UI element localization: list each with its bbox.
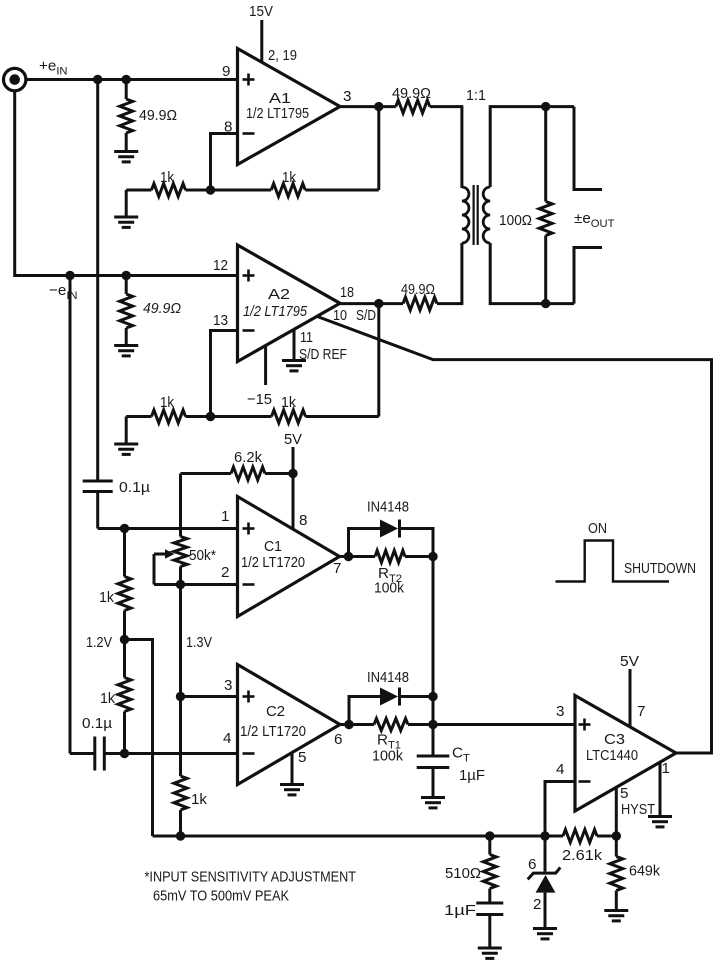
- resistor RT1 100k: [349, 723, 374, 726]
- svg-text:13: 13: [213, 312, 228, 329]
- svg-text:1k: 1k: [160, 394, 174, 411]
- svg-text:8: 8: [299, 512, 307, 529]
- node A2 inverting junction: [206, 412, 215, 421]
- resistor 510ohm: [488, 836, 491, 855]
- svg-text:3: 3: [343, 88, 351, 105]
- svg-text:ON: ON: [588, 520, 607, 537]
- wire C3 output to right edge: [676, 752, 712, 755]
- svg-text:1k: 1k: [99, 589, 114, 606]
- ground below 1k A1: [125, 190, 128, 217]
- resistor 1k A2 feedback: [211, 415, 272, 418]
- resistor 100ohm load: [544, 107, 547, 202]
- wire pin 13 to junction: [211, 331, 238, 417]
- svg-text:−15: −15: [247, 391, 272, 408]
- zener reference diode: [544, 836, 547, 872]
- svg-text:100k: 100k: [372, 748, 403, 765]
- svg-text:49.9Ω: 49.9Ω: [139, 107, 177, 124]
- svg-text:5V: 5V: [284, 431, 303, 448]
- node bus 1k: [176, 831, 185, 840]
- svg-text:A2: A2: [268, 286, 290, 303]
- resistor 49.9ohm A2 output: [379, 302, 403, 305]
- node 100ohm top: [541, 102, 550, 111]
- primary drop wire: [460, 107, 463, 188]
- ground below 1k A2: [125, 417, 128, 445]
- node bus zener: [540, 831, 549, 840]
- resistor 1k bottom: [174, 776, 187, 810]
- svg-text:1/2 LT1720: 1/2 LT1720: [241, 554, 305, 571]
- node bus 510ohm: [485, 831, 494, 840]
- wire A1 feedback row: [126, 189, 151, 192]
- svg-text:1/2 LT1795: 1/2 LT1795: [243, 303, 307, 320]
- input terminal +eIN: [4, 68, 26, 90]
- wire C1 pin 2 row: [154, 583, 238, 586]
- diode IN4148 C1 feedback: [349, 529, 381, 557]
- svg-text:4: 4: [223, 730, 231, 747]
- resistor 49.9ohm A1 output: [379, 105, 396, 108]
- supply 15V stub A1 pins 2,19: [260, 20, 263, 63]
- svg-text:1/2 LT1720: 1/2 LT1720: [240, 723, 306, 740]
- node pot bottom: [176, 580, 185, 589]
- capacitor CT 1uF: [432, 725, 435, 757]
- svg-text:12: 12: [213, 257, 228, 274]
- wire 1.3V node line: [179, 585, 182, 777]
- node junction on pin4 wire: [120, 749, 129, 758]
- capacitor 0.1u lower: [70, 752, 95, 755]
- wire feedback up to A1 output: [377, 107, 380, 190]
- svg-text:49.9Ω: 49.9Ω: [401, 281, 435, 298]
- wire S/D shutdown net: [316, 316, 712, 753]
- node junction on +eIN at x=126.2: [122, 75, 131, 84]
- svg-text:6.2k: 6.2k: [234, 449, 262, 466]
- svg-text:100Ω: 100Ω: [499, 212, 532, 229]
- resistor 6.2k pull-up: [181, 472, 232, 475]
- svg-text:7: 7: [637, 703, 645, 720]
- svg-text:1k: 1k: [100, 690, 115, 707]
- node C2 pin3 junction: [176, 692, 185, 701]
- svg-text:10: 10: [333, 307, 347, 324]
- resistor 1k A1 feedback: [211, 189, 272, 192]
- svg-text:C3: C3: [604, 731, 625, 748]
- svg-text:100k: 100k: [374, 580, 404, 597]
- svg-text:5: 5: [298, 749, 306, 766]
- pot wiper arrow: [154, 553, 166, 556]
- waveform ON/SHUTDOWN: [556, 541, 670, 582]
- supply 5V stub C3 pin 7: [629, 669, 632, 727]
- wire feedback up to A2 output: [377, 304, 380, 417]
- svg-text:IN4148: IN4148: [367, 669, 409, 686]
- node RT1 right CT top: [428, 720, 437, 729]
- comparator C3 LTC1440: [575, 696, 676, 812]
- svg-text:1.2V: 1.2V: [86, 634, 113, 651]
- ground below zener: [533, 929, 557, 939]
- node junction on +eIN at x=97.7: [93, 75, 102, 84]
- node RT2 right: [428, 552, 437, 561]
- node A1 inverting junction: [206, 185, 215, 194]
- resistor pot 50k with arrow: [179, 474, 182, 537]
- supply 5V stub C1 pin 8: [292, 447, 295, 530]
- bottom bus wire: [153, 835, 564, 838]
- svg-text:1k: 1k: [282, 169, 296, 186]
- svg-text:11: 11: [300, 329, 313, 346]
- wire input shield down to -eIN: [15, 91, 238, 276]
- wire A2 output: [340, 302, 379, 305]
- resistor 1k A1 to ground: [152, 184, 186, 197]
- primary bottom wire: [460, 243, 463, 304]
- resistor 1k A2 to ground: [152, 410, 186, 423]
- svg-text:1µF: 1µF: [444, 902, 476, 919]
- svg-text:C2: C2: [266, 703, 285, 720]
- node 5V junction: [288, 469, 297, 478]
- svg-text:49.9Ω: 49.9Ω: [392, 85, 431, 102]
- svg-text:6: 6: [334, 731, 342, 748]
- wire to C1 pin 1: [98, 527, 238, 530]
- resistor 1k chain upper: [123, 529, 126, 577]
- node A2 output junction: [374, 299, 383, 308]
- ground below CT: [421, 798, 445, 808]
- wire A1 output: [340, 105, 379, 108]
- comparator C1 1/2 LT1720: [238, 497, 340, 617]
- svg-text:1k: 1k: [191, 791, 207, 808]
- resistor 49.9ohm input A1: [125, 80, 128, 100]
- svg-text:649k: 649k: [629, 863, 660, 880]
- comparator C2 1/2 LT1720: [238, 665, 341, 785]
- svg-text:3: 3: [224, 677, 232, 694]
- svg-text:1µF: 1µF: [459, 767, 485, 784]
- output bracket upper arm: [574, 107, 602, 190]
- node A1 output junction: [374, 102, 383, 111]
- svg-text:15V: 15V: [249, 3, 274, 20]
- svg-text:8: 8: [224, 119, 232, 136]
- svg-text:65mV TO 500mV PEAK: 65mV TO 500mV PEAK: [153, 888, 289, 905]
- node C1 output: [344, 552, 353, 561]
- svg-text:0.1µ: 0.1µ: [82, 715, 112, 732]
- pin 11 S/D REF stub: [293, 329, 296, 360]
- svg-text:18: 18: [340, 284, 354, 301]
- primary winding: [462, 187, 469, 243]
- wire to C3 pin 3: [433, 723, 575, 726]
- svg-text:2: 2: [533, 896, 541, 913]
- svg-text:SHUTDOWN: SHUTDOWN: [624, 560, 696, 577]
- svg-text:1:1: 1:1: [466, 87, 486, 104]
- ground below 1uF: [478, 948, 502, 958]
- node C2 output: [344, 720, 353, 729]
- wire to C2 pin 4: [104, 752, 237, 755]
- svg-text:2.61k: 2.61k: [562, 847, 602, 864]
- node junction 1k chain top: [120, 524, 129, 533]
- ground below 49.9ohm A1: [114, 152, 138, 162]
- svg-text:9: 9: [222, 63, 230, 80]
- svg-text:LTC1440: LTC1440: [586, 747, 638, 764]
- wire pin 8 to junction: [211, 134, 238, 191]
- ground below 649k: [604, 911, 628, 921]
- ground S/D REF: [282, 361, 306, 371]
- svg-text:510Ω: 510Ω: [445, 865, 481, 882]
- resistor RT2 100k: [349, 555, 376, 558]
- svg-text:5: 5: [620, 785, 628, 802]
- ground below 49.9ohm A2: [114, 346, 138, 356]
- diode IN4148 C2 feedback: [349, 697, 380, 725]
- svg-text:4: 4: [556, 761, 564, 778]
- wire RT2 node down to C2 diode node: [432, 557, 435, 697]
- capacitor 1uF below 510ohm: [488, 889, 491, 904]
- resistor 1k chain lower: [123, 640, 126, 678]
- svg-text:3: 3: [556, 703, 564, 720]
- core bars: [473, 185, 475, 245]
- svg-text:S/D REF: S/D REF: [299, 346, 347, 363]
- secondary bottom rail: [490, 243, 574, 304]
- resistor 649k: [615, 836, 618, 857]
- supply -15 stub A2: [264, 346, 267, 386]
- svg-text:0.1µ: 0.1µ: [119, 479, 150, 496]
- output bracket lower arm: [574, 248, 602, 304]
- svg-text:7: 7: [333, 560, 341, 577]
- svg-text:2, 19: 2, 19: [268, 47, 297, 64]
- wire +eIN to A1 pin 9: [27, 78, 238, 81]
- pin 5 ground stub C2: [291, 753, 294, 785]
- secondary top rail: [490, 107, 574, 187]
- svg-text:6: 6: [528, 856, 536, 873]
- node 1.2V: [120, 635, 129, 644]
- op-amp A1 1/2 LT1795: [238, 49, 341, 165]
- wire 1.2V to bottom bus: [125, 640, 153, 837]
- node diode cathode junction: [428, 692, 437, 701]
- wire A2 feedback row: [126, 415, 151, 418]
- C3 pin 5 HYST stub: [615, 788, 618, 836]
- svg-text:1/2 LT1795: 1/2 LT1795: [246, 105, 309, 122]
- svg-text:5V: 5V: [620, 653, 640, 670]
- op-amp A2 1/2 LT1795: [238, 245, 341, 362]
- svg-text:IN4148: IN4148: [367, 499, 409, 516]
- wire to C2 pin 3: [181, 695, 238, 698]
- svg-text:1.3V: 1.3V: [186, 634, 213, 651]
- resistor 49.9ohm input A2 italic: [125, 276, 128, 295]
- C3 ground pin stub: [659, 763, 662, 817]
- wire +eIN tap down to 0.1u cap: [96, 80, 99, 482]
- node junction on -eIN at x=126.2: [122, 271, 131, 280]
- svg-text:1k: 1k: [281, 394, 296, 411]
- secondary winding: [483, 187, 490, 243]
- svg-text:50k*: 50k*: [189, 547, 216, 564]
- svg-text:C1: C1: [264, 538, 282, 555]
- wire -eIN tap down to 0.1u cap lower: [69, 276, 72, 754]
- node 100ohm bottom: [541, 299, 550, 308]
- svg-text:S/D: S/D: [356, 307, 376, 324]
- svg-text:1k: 1k: [160, 169, 174, 186]
- svg-text:2: 2: [221, 564, 229, 581]
- wire C3 pin 4: [545, 782, 575, 837]
- svg-text:49.9Ω: 49.9Ω: [143, 300, 181, 317]
- capacitor 0.1u upper: [83, 480, 113, 483]
- svg-text:1: 1: [221, 508, 229, 525]
- resistor 2.61k: [563, 830, 597, 843]
- svg-text:*INPUT SENSITIVITY ADJUSTMENT: *INPUT SENSITIVITY ADJUSTMENT: [145, 869, 357, 886]
- node junction on -eIN at x=70: [65, 271, 74, 280]
- svg-text:1: 1: [662, 760, 670, 777]
- node bus 649k: [612, 831, 621, 840]
